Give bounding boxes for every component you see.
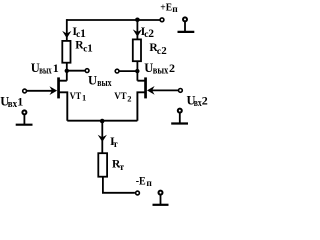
svg-text:Uвых1: Uвых1 — [31, 61, 59, 76]
VT2 collector lead — [137, 80, 145, 82]
current arrow Ic2 — [133, 29, 142, 36]
terminal +E — [160, 18, 164, 22]
wire left drop to Rc1 — [66, 19, 68, 40]
wire right drop to Rc2 — [136, 19, 138, 38]
transistor VT1 — [27, 77, 68, 120]
wire top rail +E — [67, 19, 160, 21]
svg-text:Rс1: Rс1 — [75, 40, 93, 55]
svg-text:Uвх2: Uвх2 — [187, 93, 208, 108]
resistor Rc1 — [62, 41, 70, 63]
svg-text:Uвых: Uвых — [88, 73, 112, 88]
terminal input 2 — [179, 89, 183, 93]
wire output branch 2 — [119, 70, 137, 72]
current arrow Ic1 — [62, 31, 71, 38]
node emitter rail junction dot — [100, 119, 105, 124]
wire Rт bottom to -E terminal — [103, 177, 135, 193]
ground right — [171, 109, 188, 124]
wire tail drop — [101, 121, 103, 153]
VT1 collector lead — [59, 80, 67, 82]
svg-text:VT2: VT2 — [114, 92, 131, 104]
VT2 emitter lead — [137, 92, 145, 120]
VT1 base lead with arrow — [27, 90, 53, 92]
ground bottom right — [153, 191, 169, 205]
node collector 2 junction dot — [135, 69, 139, 73]
svg-text:-Eп: -Eп — [136, 175, 153, 189]
ground left — [16, 110, 33, 124]
svg-text:Rт: Rт — [112, 159, 124, 173]
VT2 base bar — [144, 77, 147, 98]
transistor VT2 — [137, 77, 178, 120]
terminal output 2 — [115, 69, 119, 73]
node collector 1 junction dot — [65, 69, 69, 73]
svg-text:VT1: VT1 — [70, 92, 87, 103]
svg-text:Rс2: Rс2 — [149, 42, 167, 57]
svg-text:Uвх1: Uвх1 — [0, 94, 23, 109]
terminal -E — [136, 191, 140, 195]
wire Rc2 bottom to collector VT2 — [136, 61, 138, 80]
svg-text:Uвых2: Uвых2 — [144, 61, 175, 76]
current arrow Iт — [98, 135, 107, 142]
ground top right — [178, 17, 195, 32]
resistor Rт — [98, 153, 107, 177]
VT2 base lead with arrow — [152, 89, 179, 91]
svg-text:Iт: Iт — [110, 134, 118, 150]
VT1 emitter lead — [59, 92, 68, 120]
VT1 base bar — [57, 77, 60, 98]
wire Rc1 bottom to collector VT1 — [66, 63, 68, 81]
resistor Rc2 — [133, 39, 141, 61]
wire output branch 1 — [67, 70, 85, 72]
terminal input 1 — [23, 89, 27, 93]
terminal output 1 — [85, 69, 89, 73]
svg-text:+Eп: +Eп — [160, 2, 178, 15]
node junction dot on top rail — [135, 18, 140, 23]
svg-text:Iс2: Iс2 — [141, 24, 155, 40]
wire common emitter rail — [67, 120, 137, 122]
svg-text:Iс1: Iс1 — [72, 24, 86, 40]
